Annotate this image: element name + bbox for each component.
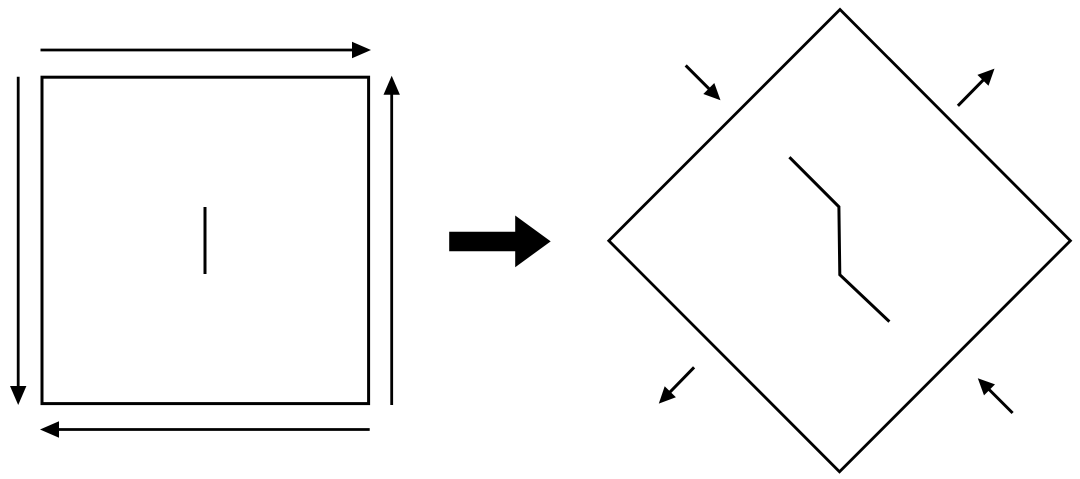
compression arrow top-left (inward): [686, 65, 721, 100]
rotated square (sheared element, diamond): [609, 10, 1071, 472]
top shear arrow (rightward): [41, 42, 372, 58]
tension arrow top-right (outward): [958, 69, 995, 106]
square outline (undeformed element): [42, 77, 369, 403]
bottom shear arrow (leftward): [40, 421, 370, 437]
right shear arrow (upward): [384, 76, 400, 405]
tension arrow bottom-left (outward): [659, 367, 694, 403]
transformation arrow (thick, rightward): [449, 216, 551, 268]
deformed marker line (zigzag): [789, 157, 889, 321]
center vertical marker line: [204, 207, 207, 274]
left shear arrow (downward): [10, 77, 26, 405]
compression arrow bottom-right (inward): [978, 378, 1013, 413]
